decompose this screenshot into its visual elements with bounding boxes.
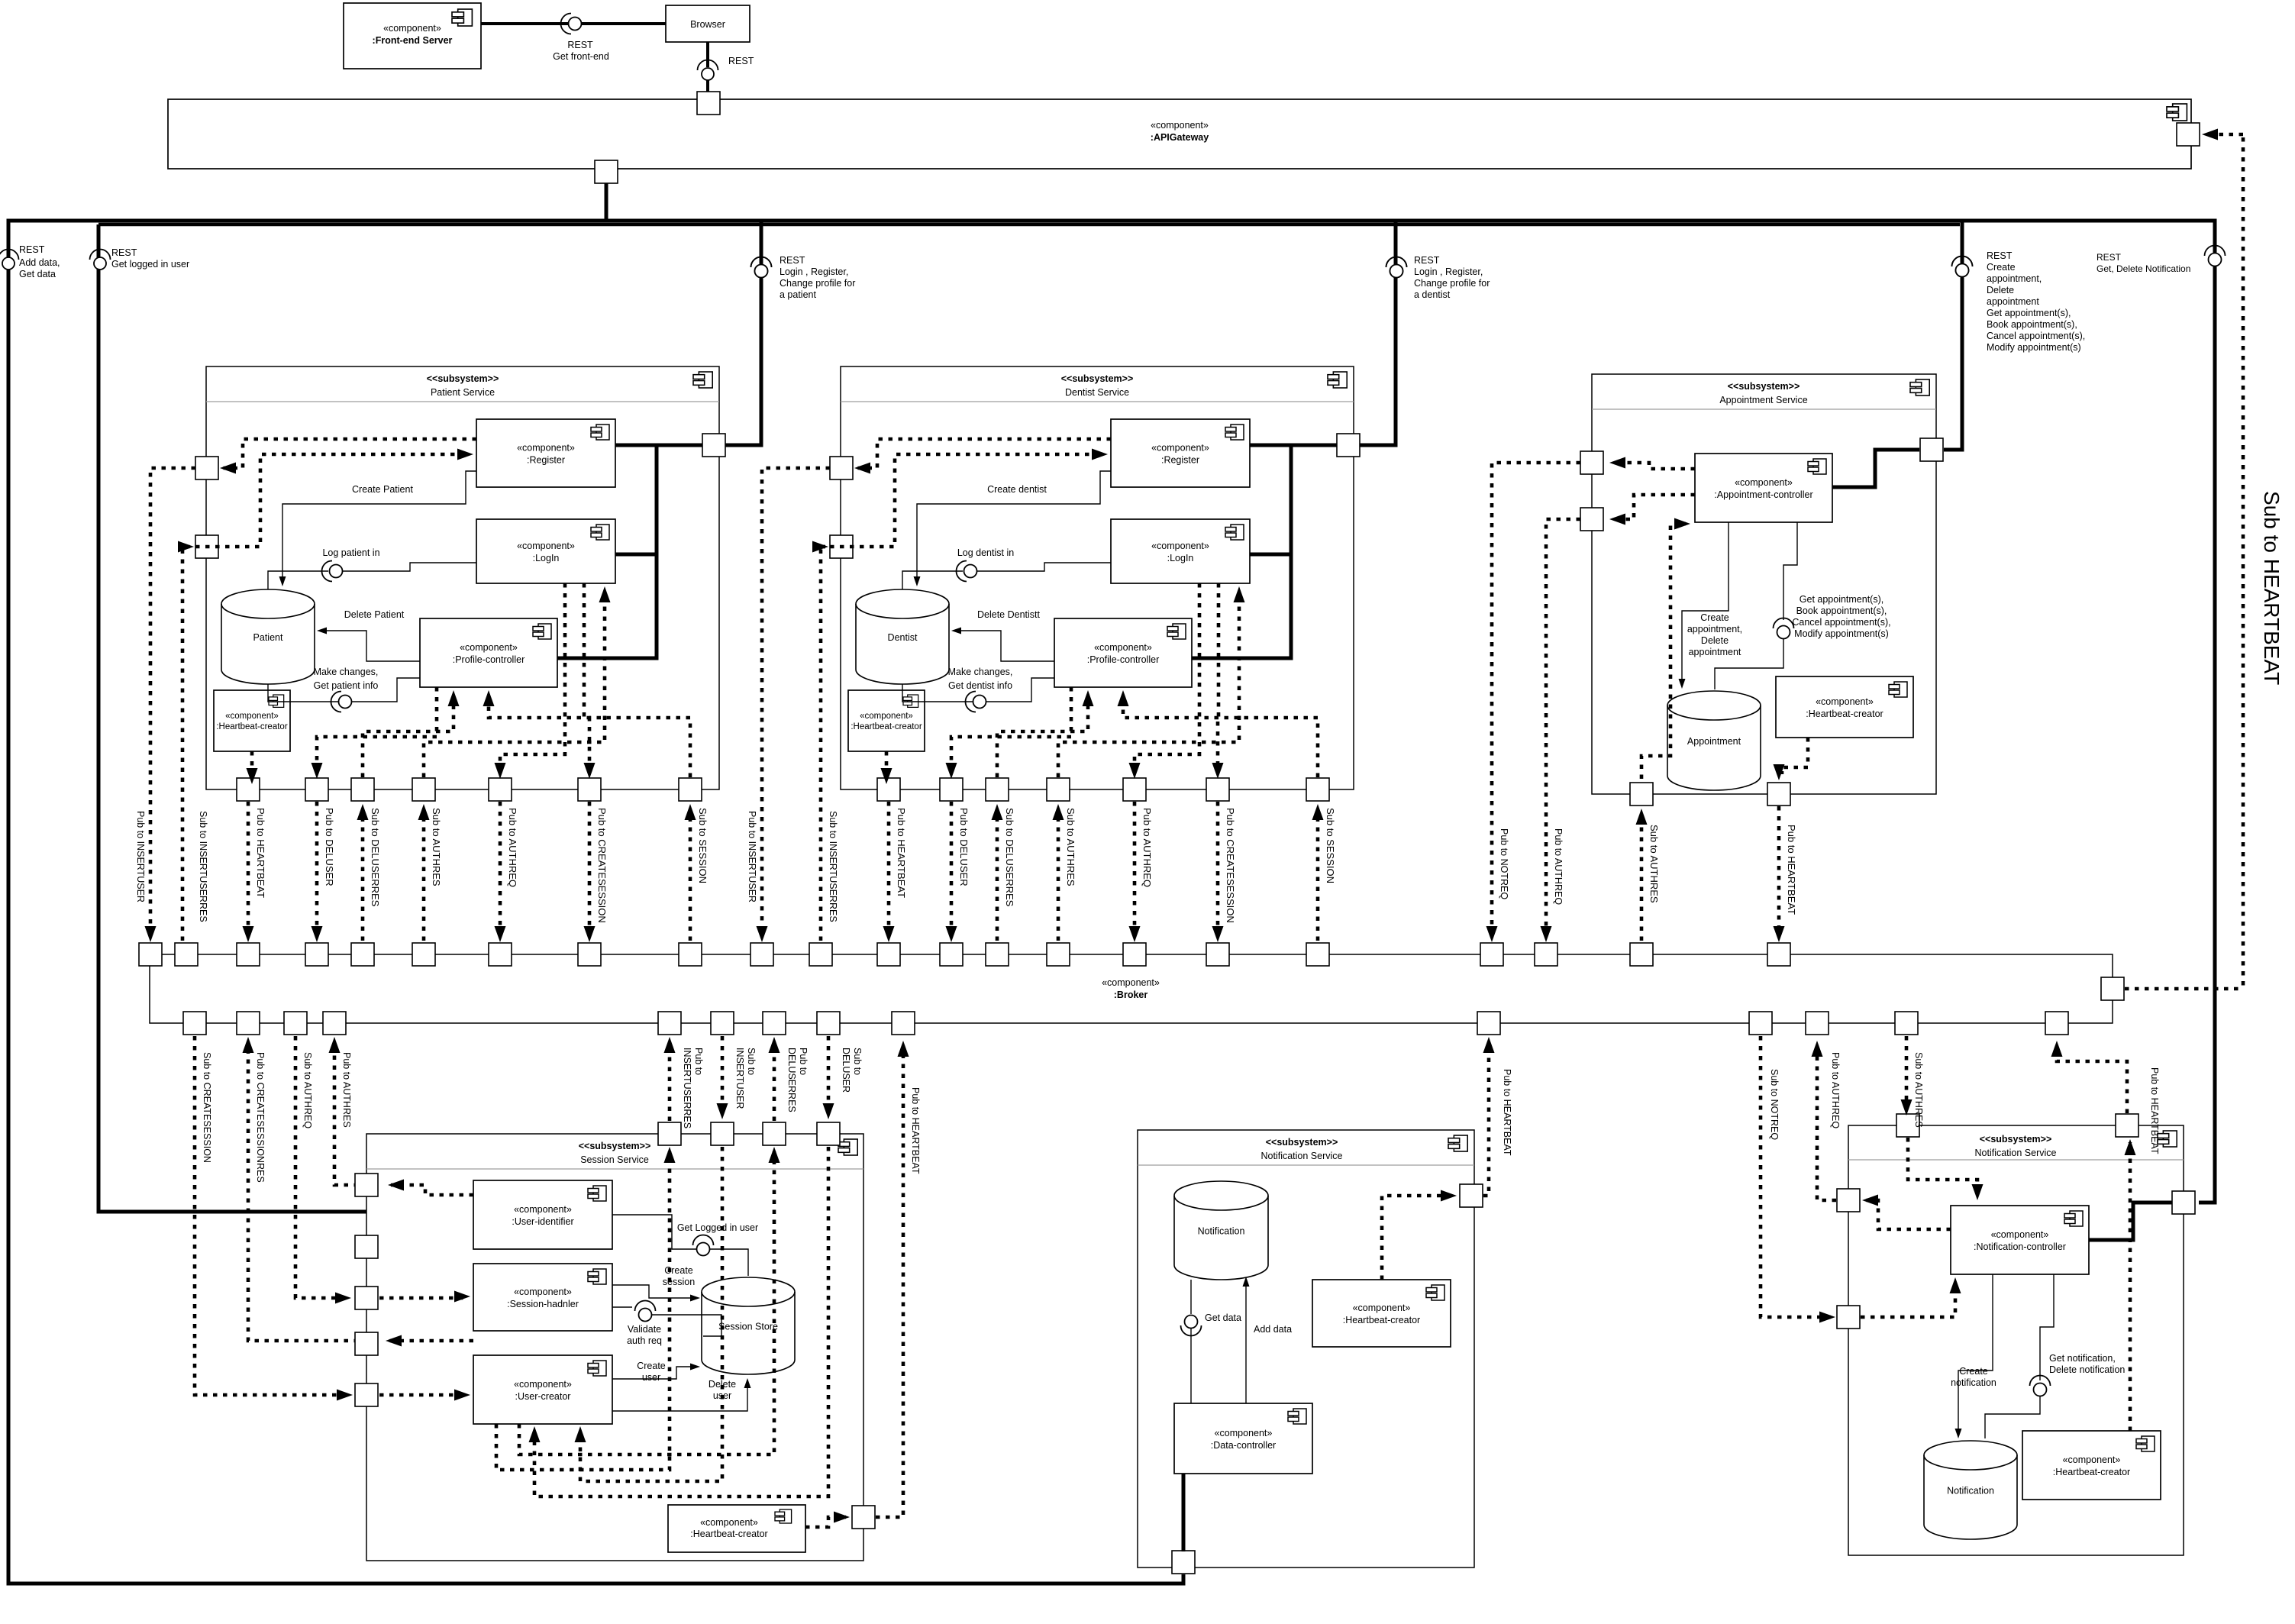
wire Pub to AUTHRES — [334, 1048, 358, 1185]
svg-text::LogIn: :LogIn — [1167, 553, 1194, 563]
svg-text:Get Logged in user: Get Logged in user — [677, 1222, 758, 1233]
port broker top x=244 — [175, 943, 198, 966]
svg-text:Log dentist in: Log dentist in — [957, 547, 1014, 558]
wire Sub to INSERTUSERRES internal (dentist) — [830, 454, 1096, 547]
svg-text:Change profile for: Change profile for — [1414, 278, 1490, 289]
port right notification top 1 — [1896, 1114, 1919, 1137]
port patient bottom x=415 — [305, 778, 328, 801]
database Notification (right) — [1924, 1441, 2017, 1539]
component :Data-controller — [1174, 1403, 1312, 1474]
wire Pub to AUTHREQ — [499, 802, 502, 934]
interface circle dentist (overlay) — [1386, 257, 1407, 268]
svg-text:Login , Register,: Login , Register, — [780, 266, 848, 277]
svg-text:REST: REST — [2096, 252, 2122, 263]
svg-text::Heartbeat-creator: :Heartbeat-creator — [216, 722, 287, 731]
wire Pub to CREATESESSION internal (dentist) — [1218, 583, 1219, 773]
svg-text:Pub to INSERTUSER: Pub to INSERTUSER — [747, 811, 757, 902]
svg-text:Session Service: Session Service — [580, 1154, 649, 1165]
svg-text:appointment: appointment — [1987, 296, 2039, 307]
port broker top x=1486 — [1123, 943, 1146, 966]
port dentist bottom x=1246 — [940, 778, 963, 801]
svg-text:«component»: «component» — [2063, 1454, 2121, 1465]
port broker bottom x=438 — [323, 1012, 346, 1035]
svg-text:Create: Create — [637, 1361, 666, 1371]
component :LogIn (dentist) — [1111, 519, 1250, 583]
component :Register (dentist) — [1111, 419, 1250, 487]
wire Pub to AUTHREQ (right notification) — [1865, 1200, 1951, 1229]
port patient bottom x=555 — [412, 778, 435, 801]
port broker right — [2101, 977, 2124, 1000]
wire session internal pub DELUSERRES — [519, 1151, 774, 1454]
svg-text:<<subsystem>>: <<subsystem>> — [427, 373, 499, 384]
svg-text:Sub to AUTHREQ: Sub to AUTHREQ — [302, 1052, 313, 1128]
port on APIGateway top — [697, 92, 720, 115]
wire Pub to INSERTUSER internal (dentist) — [857, 439, 1111, 468]
svg-text:Patient Service: Patient Service — [431, 387, 495, 398]
wire Pub to HEARTBEAT (right notification) — [2129, 1142, 2132, 1431]
wire Pub to AUTHREQ internal (patient) — [500, 583, 565, 773]
wire Sub to AUTHRES internal (appointment) — [1641, 524, 1686, 779]
wire Sub to SESSION internal (patient) — [489, 696, 690, 777]
svg-text:«component»: «component» — [1094, 642, 1152, 653]
svg-text:Pub to AUTHREQ: Pub to AUTHREQ — [1830, 1052, 1841, 1128]
svg-text:Create dentist: Create dentist — [987, 484, 1047, 495]
port broker top x=2025 — [1535, 943, 1557, 966]
port broker bottom x=325 — [237, 1012, 260, 1035]
component :Session-hadnler — [473, 1264, 612, 1331]
svg-text:«component»: «component» — [1353, 1303, 1411, 1313]
svg-text:Get dentist info: Get dentist info — [948, 680, 1012, 691]
svg-text:Delete: Delete — [1987, 285, 2014, 295]
svg-text:REST: REST — [111, 247, 137, 258]
component :Heartbeat-creator (session) — [668, 1505, 805, 1552]
component :Front-end Server — [344, 3, 481, 69]
component :LogIn (patient) — [476, 519, 615, 583]
svg-text:«component»: «component» — [1151, 443, 1209, 454]
svg-text:Pub to AUTHRES: Pub to AUTHRES — [341, 1052, 352, 1128]
interface REST Get logged in user — [90, 250, 111, 260]
svg-text:Notification: Notification — [1947, 1486, 1994, 1496]
wire Sub to INSERTUSERRES (dentist) external — [821, 547, 825, 941]
svg-text::Heartbeat-creator: :Heartbeat-creator — [1806, 709, 1883, 719]
port patient bottom x=475 — [351, 778, 374, 801]
port broker bottom x=2694 — [2045, 1012, 2068, 1035]
svg-text:appointment: appointment — [1689, 647, 1741, 657]
svg-text::User-identifier: :User-identifier — [512, 1216, 573, 1227]
wire Pub to CREATESESSION — [1216, 802, 1220, 934]
svg-text::Notification-controller: :Notification-controller — [1974, 1241, 2066, 1252]
port appointment bottom x=2330 — [1767, 783, 1790, 806]
svg-text:Get, Delete Notification: Get, Delete Notification — [2096, 263, 2190, 274]
component :Heartbeat-creator (center notification) — [1312, 1280, 1451, 1347]
wire session internal CREATESESSIONRES out to port4 — [389, 1339, 473, 1343]
wire Pub to DELUSER — [315, 802, 319, 934]
wire Delete Patient — [321, 631, 420, 661]
wire Create Patient — [282, 471, 476, 583]
svg-text:Get notification,: Get notification, — [2049, 1353, 2116, 1364]
wire REST Get logged in user line — [98, 224, 473, 1212]
svg-text::Profile-controller: :Profile-controller — [453, 654, 525, 665]
port broker top x=1164 — [877, 943, 900, 966]
svg-text:Notification Service: Notification Service — [1261, 1151, 1343, 1161]
port broker top x=475 — [351, 943, 374, 966]
svg-text:Browser: Browser — [690, 19, 725, 30]
wire session heartbeat to port — [805, 1517, 846, 1527]
wire Pub to HEARTBEAT — [887, 802, 891, 934]
svg-text:Notification: Notification — [1198, 1226, 1245, 1237]
port broker bottom x=255 — [183, 1012, 206, 1035]
wire Delete user — [612, 1382, 747, 1411]
wire broker to APIGateway heartbeat horizontal — [2125, 987, 2243, 991]
wire Sub to SESSION internal (dentist) — [1123, 696, 1318, 777]
svg-text:Pub to AUTHREQ: Pub to AUTHREQ — [507, 808, 518, 887]
svg-text::Front-end Server: :Front-end Server — [373, 35, 453, 46]
svg-text:REST: REST — [1414, 255, 1440, 266]
svg-text:Pub to HEARTBEAT: Pub to HEARTBEAT — [1502, 1069, 1512, 1156]
port dentist right — [1337, 434, 1360, 457]
svg-text:«component»: «component» — [517, 541, 575, 551]
wire Create dentist — [917, 471, 1111, 583]
svg-text:«component»: «component» — [1151, 120, 1209, 131]
wire session internal AUTHREQ in from port3 — [379, 1296, 466, 1300]
port patient bottom x=904 — [679, 778, 702, 801]
svg-text:Patient: Patient — [253, 632, 283, 643]
port dentist bottom x=1164 — [877, 778, 900, 801]
wire Pub to AUTHREQ internal (dentist) — [1135, 583, 1199, 773]
component :APIGateway — [168, 99, 2191, 169]
port right notification top 2 — [2116, 1114, 2138, 1137]
wire Add data — [1245, 1280, 1247, 1403]
wire Log patient in — [268, 571, 328, 589]
port broker top x=2330 — [1767, 943, 1790, 966]
svg-text:«component»: «component» — [1151, 541, 1209, 551]
svg-text:Get data: Get data — [1205, 1312, 1241, 1323]
component :Heartbeat-creator (patient) — [214, 690, 290, 751]
port broker bottom x=1950 — [1477, 1012, 1500, 1035]
svg-text:Appointment: Appointment — [1687, 736, 1741, 747]
svg-text:auth req: auth req — [627, 1335, 662, 1346]
svg-text:Pub to HEARTBEAT: Pub to HEARTBEAT — [255, 808, 266, 898]
svg-text:Cancel appointment(s),: Cancel appointment(s), — [1987, 331, 2085, 341]
port broker bottom x=2306 — [1749, 1012, 1772, 1035]
svg-text:Sub to INSERTUSERRES: Sub to INSERTUSERRES — [198, 811, 208, 922]
svg-text:«component»: «component» — [517, 443, 575, 454]
wire Sub to AUTHREQ — [295, 1036, 347, 1298]
wire Pub to NOTREQ external — [1492, 463, 1580, 934]
wire Browser to APIGateway REST — [706, 42, 709, 67]
svg-text:Sub to AUTHRES: Sub to AUTHRES — [1065, 808, 1076, 886]
svg-text:REST: REST — [1987, 250, 2013, 261]
wire Pub to HEARTBEAT (session) — [876, 1049, 903, 1517]
svg-text:Get patient info: Get patient info — [314, 680, 379, 691]
component :Register (patient) — [476, 419, 615, 487]
component :Broker — [150, 954, 2113, 1023]
port center notification right — [1460, 1184, 1483, 1207]
wire Pub to DELUSER — [950, 802, 954, 934]
wire Create session — [612, 1285, 696, 1298]
svg-text:«component»: «component» — [514, 1287, 572, 1297]
port patient bottom x=655 — [489, 778, 512, 801]
svg-text:a dentist: a dentist — [1414, 289, 1451, 300]
port session right heartbeat — [852, 1506, 875, 1529]
port dentist bottom x=1306 — [986, 778, 1009, 801]
wire Pub to HEARTBEAT internal (appointment) — [1782, 738, 1808, 774]
svg-text:Sub to SESSION: Sub to SESSION — [697, 808, 709, 883]
svg-text:Sub to AUTHRES: Sub to AUTHRES — [431, 808, 442, 886]
wire Pub to CREATESESSION — [588, 802, 592, 934]
port session left 1 — [355, 1174, 378, 1196]
wire Pub to HEARTBEAT (dentist) internal — [885, 751, 889, 778]
component :Heartbeat-creator (appointment) — [1776, 676, 1913, 738]
svg-text:Get data: Get data — [19, 269, 56, 279]
svg-text:Cancel appointment(s),: Cancel appointment(s), — [1792, 617, 1890, 628]
svg-text:Create: Create — [1987, 262, 2016, 273]
svg-text::Broker: :Broker — [1114, 990, 1148, 1000]
wire session internal sub INSERTUSER — [580, 1147, 722, 1481]
port broker top x=1726 — [1306, 943, 1329, 966]
port broker bottom x=1085 — [817, 1012, 840, 1035]
wire Log dentist in — [902, 571, 963, 589]
port session left 2 — [355, 1235, 378, 1258]
wire thick notification controller to frame — [2089, 1203, 2172, 1240]
svg-text:INSERTUSER: INSERTUSER — [734, 1048, 745, 1109]
svg-text:Pub to NOTREQ: Pub to NOTREQ — [1499, 828, 1509, 899]
svg-text:Login , Register,: Login , Register, — [1414, 266, 1483, 277]
svg-text:DELUSER: DELUSER — [841, 1048, 851, 1093]
database Appointment — [1667, 691, 1761, 790]
wire Sub to DELUSER (session) — [827, 1036, 831, 1104]
svg-text:Sub to INSERTUSERRES: Sub to INSERTUSERRES — [828, 811, 838, 922]
wire REST appointment thick line — [1944, 221, 1962, 450]
svg-text:Add data,: Add data, — [19, 257, 60, 268]
subsystem Appointment Service — [1592, 374, 1936, 794]
wire session internal sub DELUSER — [534, 1147, 828, 1496]
port broker top x=1595 — [1206, 943, 1229, 966]
component :User-identifier — [473, 1180, 612, 1249]
svg-text:«component»: «component» — [383, 23, 441, 34]
port patient left lower — [195, 457, 218, 479]
svg-text:Get appointment(s),: Get appointment(s), — [1987, 308, 2071, 318]
svg-text:Dentist Service: Dentist Service — [1065, 387, 1129, 398]
component Browser — [666, 5, 750, 42]
port dentist bottom x=1386 — [1047, 778, 1070, 801]
svg-text:<<subsystem>>: <<subsystem>> — [1728, 381, 1800, 392]
svg-text:Sub to AUTHRES: Sub to AUTHRES — [1648, 825, 1660, 903]
svg-text:REST: REST — [19, 244, 45, 255]
port broker bottom x=2497 — [1895, 1012, 1918, 1035]
port appointment right — [1920, 438, 1943, 461]
port session top 3 — [763, 1122, 786, 1145]
svg-text:REST: REST — [780, 255, 805, 266]
svg-text:Get front-end: Get front-end — [553, 51, 609, 62]
svg-text:appointment,: appointment, — [1987, 273, 2042, 284]
svg-text:Sub to: Sub to — [746, 1048, 757, 1075]
svg-text:Pub to HEARTBEAT: Pub to HEARTBEAT — [910, 1087, 921, 1174]
port right notification right — [2172, 1191, 2195, 1214]
wire Pub to AUTHREQ external (appointment) — [1546, 519, 1580, 934]
port broker top x=197 — [139, 943, 162, 966]
svg-text:«component»: «component» — [1816, 696, 1874, 707]
port dentist bottom x=1595 — [1206, 778, 1229, 801]
svg-text:Pub to: Pub to — [798, 1048, 809, 1075]
svg-text::Heartbeat-creator: :Heartbeat-creator — [851, 722, 922, 731]
svg-text:<<subsystem>>: <<subsystem>> — [579, 1141, 651, 1151]
wire Get notification, Delete notification — [2040, 1274, 2054, 1380]
port broker top x=1954 — [1480, 943, 1503, 966]
wire Pub to INSERTUSER (patient) external — [150, 468, 195, 934]
wire Pub to HEARTBEAT (patient) internal — [250, 751, 254, 778]
svg-text:Session Store: Session Store — [718, 1322, 778, 1332]
svg-text:Pub to AUTHREQ: Pub to AUTHREQ — [1141, 808, 1153, 887]
port broker top x=772 — [578, 943, 601, 966]
wire Pub to CREATESESSIONRES — [248, 1048, 358, 1341]
wire Make changes, Get dentist info — [902, 684, 973, 702]
svg-text::Profile-controller: :Profile-controller — [1087, 654, 1159, 665]
wire REST Get front-end — [481, 22, 568, 25]
subsystem Session Service — [366, 1134, 863, 1561]
wire Pub to AUTHREQ — [1133, 802, 1137, 934]
svg-text:Make changes,: Make changes, — [948, 667, 1013, 677]
svg-text::Register: :Register — [527, 455, 565, 466]
component :Profile-controller (patient) — [420, 618, 557, 687]
port on APIGateway bottom — [595, 160, 618, 183]
inner frame top edge — [98, 223, 1960, 227]
component :Heartbeat-creator (dentist) — [848, 690, 925, 751]
svg-text:Sub to DELUSERRES: Sub to DELUSERRES — [370, 808, 381, 907]
wire Sub to NOTREQ (right notification) — [1761, 1036, 1831, 1317]
wire Sub to INSERTUSERRES internal (patient) — [195, 454, 461, 547]
wire session internal AUTHRES out to port1 — [391, 1185, 473, 1195]
port broker bottom x=877 — [658, 1012, 681, 1035]
wire Sub to SESSION — [689, 812, 692, 941]
wire Sub to AUTHRES internal (dentist) — [1058, 592, 1239, 777]
svg-text:Pub to: Pub to — [693, 1048, 704, 1075]
interface REST Get, Delete Notification — [2205, 246, 2226, 257]
wire Sub to CREATESESSION — [195, 1036, 348, 1395]
wire Delete Dentistt — [955, 631, 1054, 661]
port broker top x=415 — [305, 943, 328, 966]
wire patient internal bus — [615, 444, 702, 447]
svg-text:Pub to CREATESESSION: Pub to CREATESESSION — [596, 808, 608, 923]
svg-text:REST: REST — [728, 56, 754, 66]
svg-text:Appointment Service: Appointment Service — [1719, 395, 1807, 405]
subsystem Dentist Service — [841, 366, 1354, 789]
port broker top x=2150 — [1630, 943, 1653, 966]
port session top 1 — [658, 1122, 681, 1145]
wire Pub to INSERTUSERRES (session) — [668, 1048, 672, 1121]
svg-text:Validate: Validate — [628, 1324, 661, 1335]
port broker top x=1246 — [940, 943, 963, 966]
wire Get Logged in user — [612, 1215, 696, 1249]
svg-text:Get logged in user: Get logged in user — [111, 259, 189, 270]
svg-text:INSERTUSERRES: INSERTUSERRES — [682, 1048, 692, 1128]
svg-text:REST: REST — [567, 40, 593, 50]
wire Sub to AUTHRES internal (patient) — [424, 592, 605, 777]
svg-text:Delete Dentistt: Delete Dentistt — [977, 609, 1041, 620]
wire Sub to AUTHRES — [1640, 817, 1644, 941]
database Session Store — [702, 1277, 795, 1374]
svg-text:a patient: a patient — [780, 289, 816, 300]
wire Sub to AUTHRES — [1057, 812, 1060, 941]
port session left 3 — [355, 1287, 378, 1309]
svg-text:Book appointment(s),: Book appointment(s), — [1796, 605, 1887, 616]
svg-text:«component»: «component» — [460, 642, 518, 653]
component :Notification-controller — [1951, 1206, 2089, 1274]
wire Sub to SESSION — [1316, 812, 1320, 941]
port broker top x=1306 — [986, 943, 1009, 966]
wire Pub to NOTREQ internal — [1612, 463, 1695, 469]
svg-text:user: user — [642, 1372, 660, 1383]
svg-text:appointment,: appointment, — [1687, 624, 1742, 634]
interface circle patient (overlay) — [751, 257, 772, 268]
port right notification left 1 — [1837, 1189, 1860, 1212]
wire Validate auth req — [612, 1306, 632, 1308]
interface REST appointment — [1952, 257, 1973, 267]
svg-text:Pub to HEARTBEAT: Pub to HEARTBEAT — [1786, 825, 1797, 915]
wire APIGateway to outer frame — [605, 183, 608, 219]
wire center notification heartbeat to broker — [1382, 1196, 1453, 1280]
port session top 2 — [711, 1122, 734, 1145]
port dentist bottom x=1486 — [1123, 778, 1146, 801]
svg-text::Session-hadnler: :Session-hadnler — [507, 1299, 579, 1309]
svg-text:Pub to AUTHREQ: Pub to AUTHREQ — [1553, 828, 1564, 905]
svg-text:Add data: Add data — [1254, 1324, 1292, 1335]
subsystem Notification Service (right) — [1848, 1125, 2184, 1555]
wire REST dentist thick line — [1360, 221, 1396, 445]
svg-text::APIGateway: :APIGateway — [1151, 132, 1209, 143]
svg-text:Delete notification: Delete notification — [2049, 1364, 2125, 1375]
svg-text::Heartbeat-creator: :Heartbeat-creator — [1343, 1315, 1420, 1325]
wire Sub to INSERTUSER (session) — [721, 1036, 725, 1104]
port on APIGateway right — [2177, 123, 2200, 146]
port center notification bottom — [1172, 1551, 1195, 1574]
wire Data-controller to frame (thick) — [1182, 1474, 1186, 1551]
wire Make changes, Get patient info — [268, 684, 338, 702]
wire REST patient thick line — [725, 221, 761, 445]
wire Sub to AUTHRES (right notification) — [1905, 1036, 1909, 1107]
wire Pub to INSERTUSER (dentist) external — [762, 468, 830, 934]
database Patient — [221, 589, 315, 684]
svg-text:Delete Patient: Delete Patient — [344, 609, 405, 620]
port broker bottom x=2380 — [1806, 1012, 1829, 1035]
port broker bottom x=1014 — [763, 1012, 786, 1035]
port broker top x=555 — [412, 943, 435, 966]
svg-text:Create: Create — [1700, 612, 1729, 623]
svg-text:Modify appointment(s): Modify appointment(s) — [1794, 628, 1889, 639]
svg-text:Delete: Delete — [1701, 635, 1729, 646]
svg-text:Get appointment(s),: Get appointment(s), — [1800, 594, 1883, 605]
port right notification left 2 — [1837, 1306, 1860, 1329]
database Notification (center) — [1174, 1181, 1268, 1280]
wire Pub to AUTHREQ internal (appointment) — [1612, 495, 1695, 519]
svg-text:«component»: «component» — [1991, 1229, 2049, 1240]
svg-text:Pub to INSERTUSER: Pub to INSERTUSER — [135, 811, 146, 902]
port broker bottom x=1183 — [892, 1012, 915, 1035]
wire Sub to DELUSERRES internal (dentist) — [997, 696, 1088, 777]
svg-text::LogIn: :LogIn — [533, 553, 560, 563]
wire Create notification — [1958, 1274, 1993, 1435]
svg-text::User-creator: :User-creator — [515, 1391, 571, 1402]
svg-text:Sub to DELUSERRES: Sub to DELUSERRES — [1004, 808, 1015, 907]
wire session internal pub INSERTUSERRES — [496, 1151, 670, 1470]
svg-text:Pub to DELUSER: Pub to DELUSER — [958, 808, 970, 886]
svg-text:Sub to AUTHRES: Sub to AUTHRES — [1913, 1052, 1924, 1128]
svg-text:Modify appointment(s): Modify appointment(s) — [1987, 342, 2081, 353]
port broker bottom x=387 — [284, 1012, 307, 1035]
port broker bottom x=946 — [711, 1012, 734, 1035]
interface REST Add data, Get data — [0, 250, 19, 260]
port broker top x=655 — [489, 943, 512, 966]
